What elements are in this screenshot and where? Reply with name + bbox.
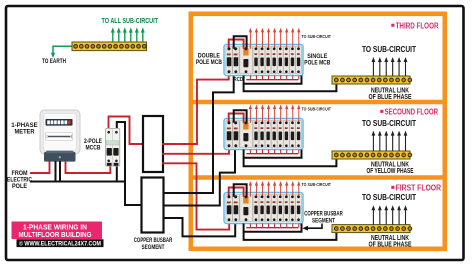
sub-circuit arrows first floor: [249, 181, 301, 197]
svg-text:TO ALL SUB-CIRCUIT: TO ALL SUB-CIRCUIT: [102, 16, 159, 25]
wire neutral meter drop: [56, 161, 61, 182]
title banner: [12, 222, 103, 240]
svg-text:OF BLUE PHASE: OF BLUE PHASE: [369, 242, 412, 249]
floor divider between second and first floor: [193, 175, 445, 179]
svg-text:SECOUND FLOOR: SECOUND FLOOR: [385, 108, 439, 117]
double pole MCB first floor: [226, 195, 239, 222]
svg-text:OF BLUE PHASE: OF BLUE PHASE: [369, 94, 412, 101]
svg-text:TO SUB-CIRCUIT: TO SUB-CIRCUIT: [362, 193, 416, 202]
wire neutral mccb to busbar segment: [117, 122, 143, 205]
svg-text:OF YELLOW PHASE: OF YELLOW PHASE: [367, 168, 414, 175]
svg-text:POLE MCB: POLE MCB: [304, 60, 330, 67]
svg-text:TO EARTH: TO EARTH: [42, 58, 66, 65]
wire neutral feed first floor: [163, 218, 236, 236]
double pole MCB second floor: [226, 121, 239, 148]
wire neutral mccb bottom: [116, 166, 118, 182]
wire green earth conductor: [53, 46, 73, 53]
svg-text:MCCB: MCCB: [86, 144, 101, 151]
wire phase feed first floor: [162, 163, 229, 229]
website bar: [17, 239, 104, 247]
to sub-circuit arrows second floor: [372, 131, 408, 151]
wire to neutral link third floor: [244, 83, 337, 91]
single pole MCB bank third floor: [253, 47, 301, 74]
earth link busbar: [72, 42, 147, 51]
distribution board second floor: [224, 119, 303, 150]
wire phase bridge third floor: [229, 40, 244, 49]
wire phase meter to mccb: [66, 161, 111, 173]
RCD first floor: [240, 195, 253, 222]
neutral channel busbar second floor: [244, 150, 302, 158]
svg-text:SEGMENT: SEGMENT: [312, 218, 335, 225]
distribution board third floor: [224, 45, 303, 76]
label FIRST FLOOR: [391, 186, 394, 189]
wire to neutral link second floor: [244, 158, 337, 167]
sub-circuit arrows third floor: [249, 28, 301, 49]
sub-circuit arrows second floor: [249, 105, 301, 123]
label THIRD FLOOR: [391, 24, 394, 27]
svg-text:TO SUB-CIRCUIT: TO SUB-CIRCUIT: [302, 182, 332, 187]
wire to neutral link first floor: [244, 232, 337, 240]
svg-text:© WWW.ELECTRICAL24X7.COM: © WWW.ELECTRICAL24X7.COM: [19, 241, 101, 248]
copper busbar pointer arrow: [307, 224, 322, 229]
svg-text:FIRST FLOOR: FIRST FLOOR: [396, 184, 442, 193]
wire phase feed third floor: [162, 73, 229, 144]
2-pole MCCB breaker: [106, 129, 120, 167]
wire neutral feed second floor: [163, 148, 236, 206]
wire phase bridge second floor: [229, 114, 244, 123]
svg-text:SEGMENT: SEGMENT: [142, 244, 165, 251]
neutral channel busbar third floor: [244, 76, 302, 84]
terminal dots first floor: [227, 195, 299, 198]
wire neutral bridge first floor: [234, 184, 247, 197]
phase comb busbar third floor: [246, 76, 298, 80]
wire phase feed second floor: [162, 147, 229, 154]
wire phase mccb to busbar segment: [109, 117, 145, 145]
double pole MCB third floor: [226, 47, 239, 74]
svg-text:POLE: POLE: [12, 183, 27, 190]
neutral link busbar first floor: [332, 225, 410, 233]
single pole MCB bank second floor: [253, 121, 301, 148]
phase copper busbar segment (riser): [143, 116, 163, 172]
wire neutral from electric pole: [30, 181, 125, 183]
distribution board first floor: [224, 193, 303, 224]
building outline box: [191, 14, 445, 249]
svg-text:TO SUB-CIRCUIT: TO SUB-CIRCUIT: [302, 34, 332, 39]
wire neutral feed third floor: [163, 74, 234, 193]
svg-text:METER: METER: [15, 128, 35, 135]
neutral link busbar second floor: [332, 151, 410, 159]
label SECOUND FLOOR: [380, 110, 383, 113]
svg-text:MULTIFLOOR BUILDING: MULTIFLOOR BUILDING: [19, 230, 92, 239]
neutral copper busbar segment (riser): [142, 178, 164, 233]
phase comb busbar first floor: [246, 224, 298, 228]
neutral channel busbar first floor: [244, 224, 302, 232]
RCD third floor: [240, 47, 253, 74]
RCD second floor: [240, 121, 253, 148]
wire phase from electric pole to meter: [30, 161, 50, 173]
wire phase bridge first floor: [229, 188, 244, 197]
wire neutral bridge third floor: [234, 36, 247, 49]
terminal dots second floor: [227, 121, 299, 124]
svg-text:POLE MCB: POLE MCB: [196, 59, 222, 66]
single pole MCB bank first floor: [253, 195, 301, 222]
svg-text:RCD: RCD: [234, 77, 244, 83]
svg-text:THIRD FLOOR: THIRD FLOOR: [396, 22, 439, 31]
svg-text:TO SUB-CIRCUIT: TO SUB-CIRCUIT: [302, 106, 332, 111]
neutral link busbar third floor: [332, 76, 410, 84]
svg-text:TO SUB-CIRCUIT: TO SUB-CIRCUIT: [362, 119, 416, 128]
to sub-circuit arrows third floor: [372, 57, 408, 76]
green arrows to all sub-circuit: [112, 31, 114, 42]
to sub-circuit arrows first floor: [372, 205, 408, 224]
floor divider between third and second floor: [193, 100, 445, 104]
wire neutral bridge second floor: [234, 110, 247, 123]
phase comb busbar second floor: [246, 150, 298, 154]
1-phase energy meter: [40, 110, 80, 162]
terminal dots third floor: [227, 47, 299, 50]
svg-text:TO SUB-CIRCUIT: TO SUB-CIRCUIT: [362, 45, 416, 54]
